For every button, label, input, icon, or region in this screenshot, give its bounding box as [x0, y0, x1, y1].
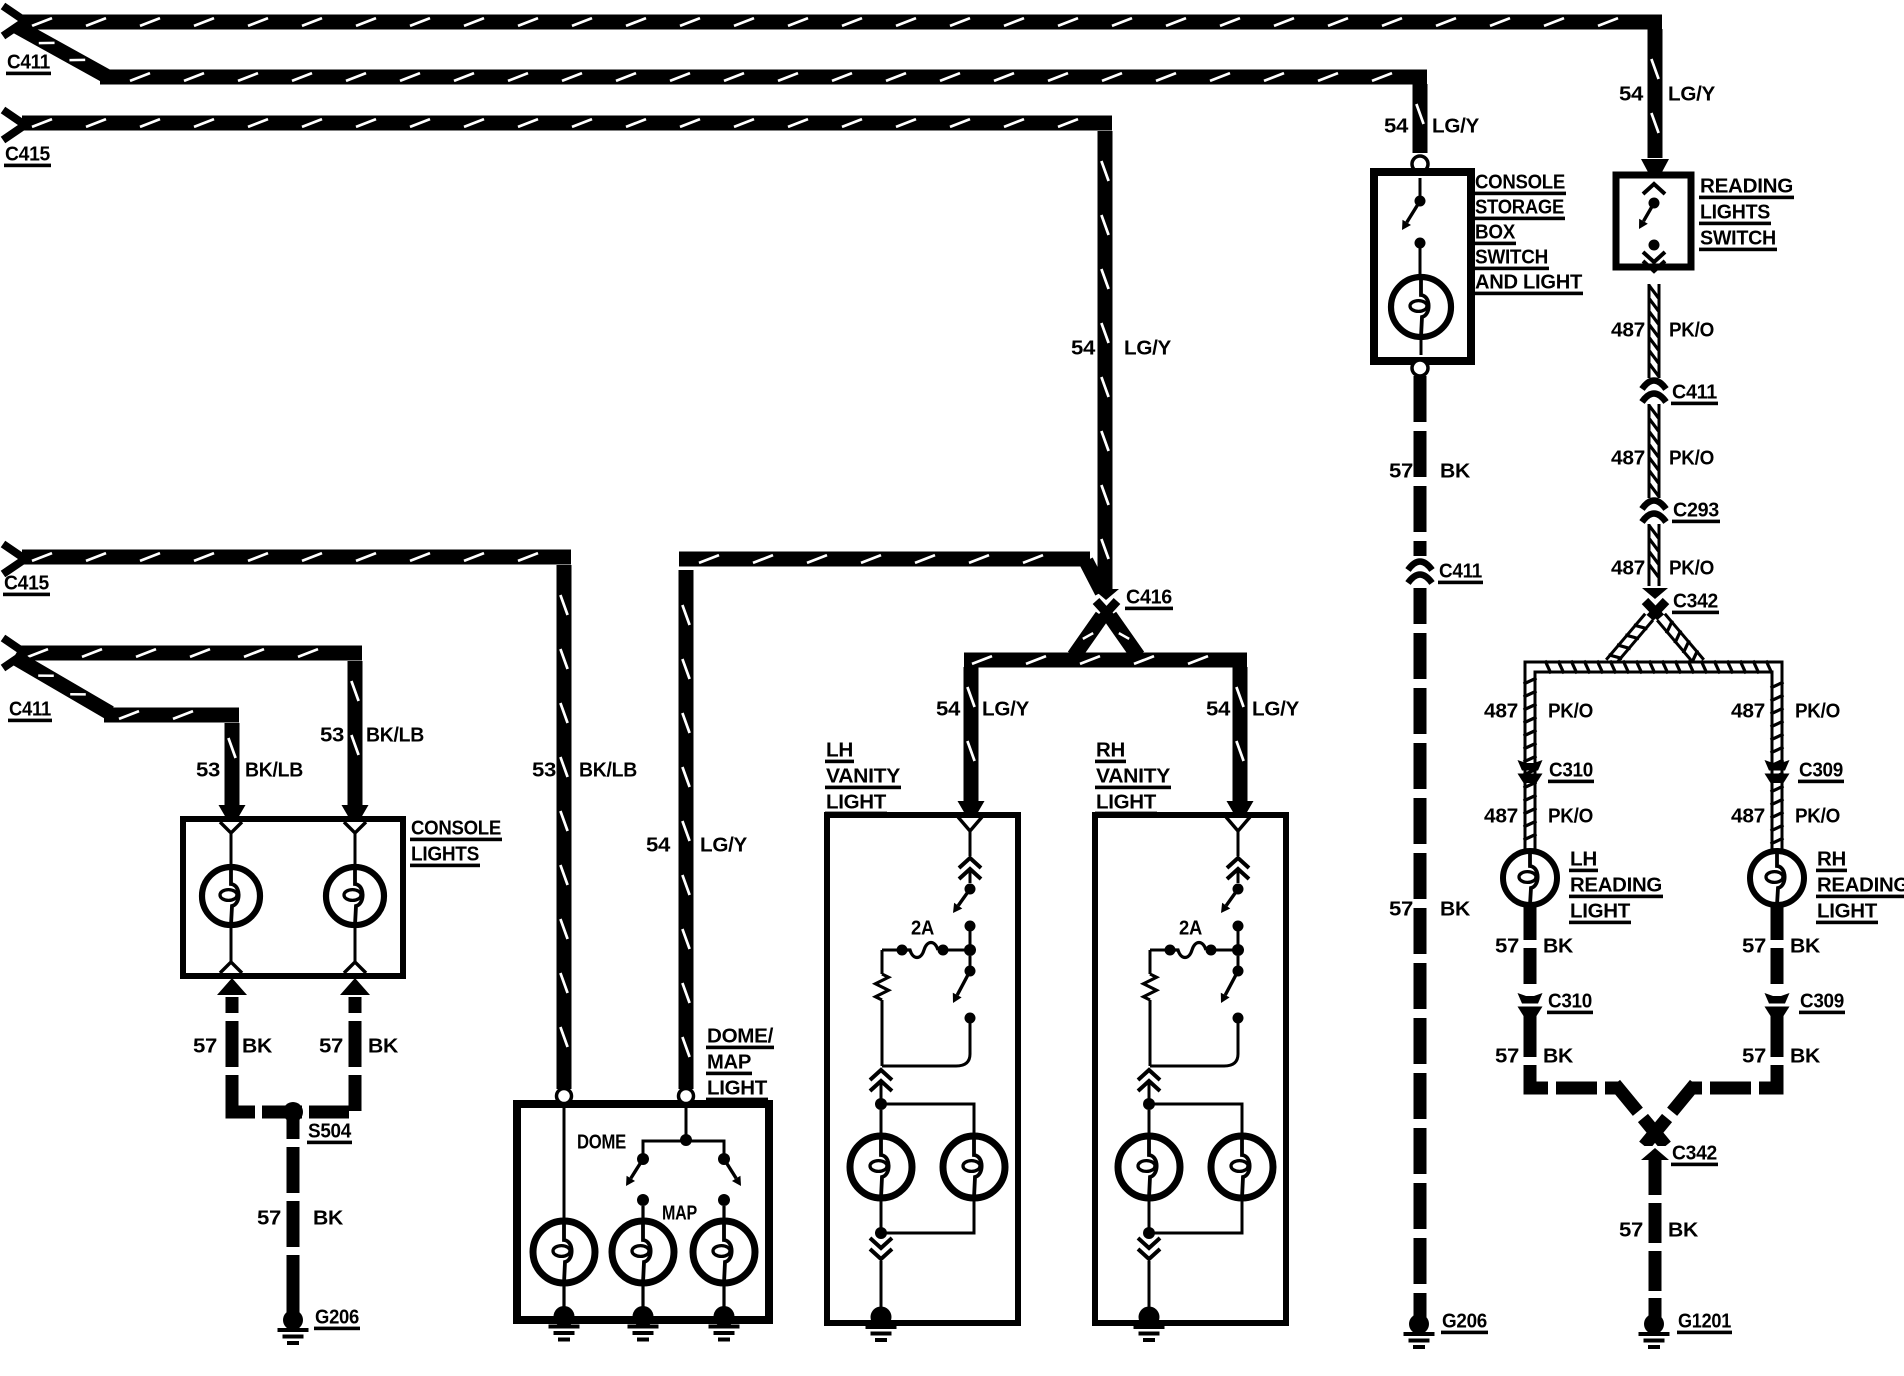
connector C411 (top left, in-line connector half): [3, 6, 25, 36]
wire 53 BK/LB vertical drop to dome/map light: [557, 565, 572, 1089]
label C342 (lower): [1671, 1142, 1718, 1166]
label 57 BK (storage box ground, lower): [1389, 898, 1471, 920]
svg-text:LG/Y: LG/Y: [700, 834, 748, 856]
svg-text:G206: G206: [315, 1306, 359, 1328]
dome bulb ground lead and case ground: [549, 1283, 580, 1342]
connector C411 (reading lights circuit): [1642, 381, 1666, 403]
label C411 (reading lights circuit): [1671, 381, 1718, 405]
svg-text:C411: C411: [1439, 560, 1482, 582]
svg-text:RH: RH: [1817, 848, 1846, 870]
svg-text:487: 487: [1611, 447, 1645, 469]
label 53 BK/LB (console lights LH feed): [196, 759, 303, 781]
label 57 BK (RH reading light): [1742, 935, 1821, 957]
label C310 (lower): [1547, 990, 1593, 1014]
svg-text:BK: BK: [1543, 935, 1574, 957]
label 57 BK (S504 to G206): [257, 1207, 344, 1229]
svg-text:READING: READING: [1817, 874, 1904, 896]
svg-text:487: 487: [1484, 805, 1518, 827]
wire 57 BK from C309 to splice C342 (lower): [1644, 1016, 1777, 1146]
svg-text:57: 57: [1495, 935, 1519, 957]
wire 54 LG/Y from C416 to dome/map light (horizontal run): [679, 552, 1102, 593]
svg-text:LG/Y: LG/Y: [982, 698, 1030, 720]
connector C342 (lower): [1641, 1146, 1669, 1160]
RH vanity light bulb 1: [1118, 1136, 1180, 1198]
svg-text:57: 57: [1742, 935, 1766, 957]
RH vanity light terminal notch: [1226, 817, 1250, 856]
wire 53 BK/LB drop to console lights RH bulb: [342, 661, 369, 817]
console lights LH bulb: [202, 867, 260, 925]
svg-text:G206: G206: [1442, 1310, 1487, 1332]
wire 54 LG/Y vertical drop from C415 run to connector C416: [1098, 131, 1113, 589]
RH vanity light door switch: [1221, 884, 1244, 957]
RH vanity light bulb 2: [1211, 1136, 1273, 1198]
ground G206 (console lights): [278, 1295, 309, 1345]
dome bulb: [533, 1221, 595, 1283]
connector C309 (lower): [1765, 993, 1790, 1016]
label 57 BK (console RH ground lead): [319, 1035, 399, 1057]
label DOME/ MAP LIGHT: [706, 1025, 774, 1101]
LH vanity light ground chevrons: [870, 1238, 892, 1308]
label G1201: [1677, 1310, 1732, 1334]
label C411 (mid left): [8, 698, 52, 722]
wire 57 BK from console lights RH bulb to splice S504: [340, 978, 370, 1104]
svg-text:CONSOLE: CONSOLE: [1475, 171, 1565, 193]
wire 487 PK/O from C293 to C342: [1648, 524, 1661, 586]
svg-text:VANITY: VANITY: [826, 765, 901, 787]
svg-text:BK: BK: [1668, 1219, 1699, 1241]
svg-text:LG/Y: LG/Y: [1252, 698, 1300, 720]
svg-text:C415: C415: [4, 572, 49, 594]
label RH VANITY LIGHT: [1095, 739, 1171, 815]
svg-text:LIGHTS: LIGHTS: [411, 843, 479, 865]
svg-text:C411: C411: [7, 51, 50, 73]
svg-text:C310: C310: [1548, 990, 1592, 1012]
svg-text:STORAGE: STORAGE: [1475, 196, 1564, 218]
label 487 PK/O (above C342): [1611, 557, 1714, 579]
svg-text:PK/O: PK/O: [1795, 805, 1840, 827]
svg-text:54: 54: [1071, 337, 1096, 359]
label 487 PK/O (LH lower): [1484, 805, 1593, 827]
svg-text:LH: LH: [1570, 848, 1597, 870]
reading lights switch output chevron: [1643, 261, 1665, 271]
svg-text:BK/LB: BK/LB: [245, 759, 303, 781]
svg-text:LIGHT: LIGHT: [1096, 791, 1156, 813]
svg-text:DOME/: DOME/: [707, 1025, 774, 1047]
svg-text:BK: BK: [1543, 1045, 1574, 1067]
wire 53 BK/LB from C415 to dome/map light (horizontal run): [22, 550, 571, 565]
svg-text:BK: BK: [1790, 1045, 1821, 1067]
svg-text:PK/O: PK/O: [1548, 805, 1593, 827]
wire 57 BK from C310 to splice C342 (lower): [1530, 1016, 1666, 1146]
svg-text:BOX: BOX: [1475, 221, 1516, 243]
svg-text:BK: BK: [1440, 898, 1471, 920]
label 57 BK (to G1201): [1619, 1219, 1699, 1241]
label C293: [1672, 499, 1720, 523]
RH vanity light resistor branch: [1144, 950, 1157, 1066]
console storage box bottom terminal: [1412, 360, 1428, 376]
svg-text:C342: C342: [1672, 1142, 1717, 1164]
svg-text:PK/O: PK/O: [1669, 319, 1714, 341]
connector C293: [1642, 501, 1666, 523]
svg-text:54: 54: [936, 698, 961, 720]
LH vanity light bulb 1: [850, 1136, 912, 1198]
svg-text:57: 57: [1619, 1219, 1643, 1241]
LH vanity light box: [827, 815, 1018, 1323]
label 57 BK (LH reading light): [1495, 935, 1574, 957]
wire 57 BK from console lights LH bulb to splice S504: [217, 978, 247, 1104]
wire 53 BK/LB from C411 to console lights RH bulb (horizontal run): [18, 646, 362, 661]
wire 53 BK/LB drop to console lights LH bulb: [219, 723, 246, 817]
connector C411 (fourth from top, in-line connector half): [3, 638, 25, 668]
wire 57 BK horizontal joining runs at splice S504: [232, 1095, 355, 1112]
label C310 (upper): [1548, 759, 1594, 783]
wire 53 BK/LB from C411 to console lights LH bulb (diagonal + horizontal run): [14, 657, 239, 723]
RH vanity light 2A fuse branch: [1150, 943, 1238, 958]
svg-text:LIGHTS: LIGHTS: [1700, 201, 1770, 223]
svg-text:53: 53: [196, 759, 220, 781]
svg-text:LIGHT: LIGHT: [1817, 900, 1877, 922]
wire 487 PK/O from C411 to C293: [1648, 404, 1661, 498]
LH vanity light internal connector chevrons: [959, 858, 981, 883]
connector C411 (in-line on 57 BK wire): [1408, 562, 1432, 584]
svg-text:SWITCH: SWITCH: [1700, 227, 1776, 249]
svg-text:53: 53: [320, 724, 344, 746]
label 57 BK (storage box ground, upper): [1389, 460, 1471, 482]
console storage box top terminal: [1412, 156, 1428, 172]
svg-text:BK: BK: [1440, 460, 1471, 482]
svg-text:487: 487: [1484, 700, 1518, 722]
wire 57 BK from LH reading light to C310 (lower): [1524, 904, 1537, 991]
wire 54 LG/Y from C411 to reading lights switch (top horizontal run): [22, 15, 1662, 30]
svg-text:54: 54: [1206, 698, 1231, 720]
console storage box switch: [1402, 178, 1426, 278]
svg-text:MAP: MAP: [662, 1202, 697, 1224]
label 57 BK (LH below C310): [1495, 1045, 1574, 1067]
label 54 LG/Y (RH vanity feed): [1206, 698, 1300, 720]
svg-text:RH: RH: [1096, 739, 1125, 761]
dome/map light terminal (53 BK/LB side): [557, 1089, 572, 1104]
connector C415 (third from top, in-line connector half): [3, 544, 25, 574]
svg-text:READING: READING: [1700, 175, 1793, 197]
svg-text:C309: C309: [1799, 759, 1843, 781]
label C309 (lower): [1799, 990, 1845, 1014]
label CONSOLE STORAGE BOX SWITCH AND LIGHT: [1474, 171, 1583, 295]
svg-text:LG/Y: LG/Y: [1124, 337, 1172, 359]
wire 54 LG/Y from C411 to console storage box switch (diagonal + second horizontal run): [16, 26, 1427, 85]
wire 54 LG/Y vertical drop to dome/map light switch side: [679, 570, 694, 1089]
RH vanity light bulb branch node: [1143, 1098, 1242, 1136]
RH vanity light main switch: [1150, 956, 1244, 1066]
connector C310 (upper): [1518, 760, 1543, 783]
wire 54 LG/Y from C415 to connector C416 (horizontal run): [22, 116, 1112, 131]
wire 487 PK/O split to LH and RH reading lights: [1524, 617, 1784, 855]
ground G206 (console storage box): [1404, 1298, 1435, 1349]
label 487 PK/O (LH upper): [1484, 700, 1593, 722]
svg-text:LIGHT: LIGHT: [707, 1077, 767, 1099]
svg-text:487: 487: [1611, 557, 1645, 579]
RH vanity light box: [1095, 815, 1286, 1323]
LH vanity light resistor branch: [876, 950, 889, 1066]
svg-text:487: 487: [1611, 319, 1645, 341]
console lights RH bulb: [326, 867, 384, 925]
LH reading light bulb: [1503, 851, 1557, 905]
label 2A (LH vanity fuse): [911, 917, 934, 939]
svg-text:LG/Y: LG/Y: [1668, 83, 1716, 105]
svg-text:S504: S504: [308, 1120, 352, 1142]
connector C416 (4-way splice connector): [1093, 589, 1119, 624]
connector C415 (second from top, in-line connector half): [3, 110, 25, 140]
LH vanity light main switch: [882, 956, 976, 1066]
svg-text:C310: C310: [1549, 759, 1593, 781]
RH vanity light case ground: [1134, 1307, 1165, 1343]
label LH READING LIGHT: [1569, 848, 1663, 924]
svg-text:C293: C293: [1673, 499, 1719, 521]
svg-text:DOME: DOME: [577, 1131, 626, 1153]
svg-text:READING: READING: [1570, 874, 1662, 896]
wire 487 PK/O from reading lights switch to connector C411: [1648, 284, 1661, 378]
svg-text:57: 57: [1389, 898, 1413, 920]
label G206 (console lights ground): [314, 1306, 360, 1330]
svg-text:SWITCH: SWITCH: [1475, 246, 1548, 268]
ground G1201: [1639, 1298, 1670, 1349]
label 53 BK/LB (console lights RH feed): [320, 724, 424, 746]
LH vanity light case ground: [866, 1307, 897, 1343]
connector C309 (upper): [1765, 760, 1790, 783]
LH vanity light bulb ground leads: [875, 1198, 974, 1239]
dome/map switch common lead and bar: [643, 1104, 724, 1158]
svg-text:57: 57: [257, 1207, 281, 1229]
svg-text:C342: C342: [1673, 590, 1718, 612]
map bulb RH: [693, 1221, 755, 1283]
label 487 PK/O (above C411): [1611, 319, 1714, 341]
label 54 LG/Y (wire to reading lights switch): [1619, 83, 1716, 105]
svg-text:PK/O: PK/O: [1669, 447, 1714, 469]
label G206 (console storage box ground): [1441, 1310, 1488, 1334]
svg-text:57: 57: [193, 1035, 217, 1057]
svg-text:C415: C415: [5, 143, 50, 165]
wire 54 LG/Y drop to LH vanity light: [958, 667, 985, 813]
svg-text:2A: 2A: [911, 917, 934, 939]
label 487 PK/O (above C293): [1611, 447, 1714, 469]
label 487 PK/O (RH lower): [1731, 805, 1840, 827]
label S504: [307, 1120, 352, 1144]
label MAP: [662, 1202, 697, 1224]
label DOME: [577, 1131, 626, 1153]
svg-text:LIGHT: LIGHT: [1570, 900, 1630, 922]
reading lights switch internals: [1639, 184, 1665, 262]
LH vanity light bulb branch node: [875, 1098, 974, 1136]
reading lights switch box: [1616, 175, 1691, 267]
wire 57 BK from RH reading light to C309 (lower): [1771, 904, 1784, 991]
LH vanity light door switch: [953, 884, 976, 957]
svg-text:BK: BK: [1790, 935, 1821, 957]
svg-text:C411: C411: [1672, 381, 1717, 403]
svg-text:487: 487: [1731, 700, 1765, 722]
wire 54 LG/Y drop to RH vanity light: [1227, 667, 1254, 813]
dome/map light terminal (54 LG/Y side): [679, 1089, 694, 1104]
label CONSOLE LIGHTS: [410, 817, 502, 867]
svg-text:LIGHT: LIGHT: [826, 791, 886, 813]
label C415 (upper left): [4, 143, 51, 167]
svg-text:C416: C416: [1126, 586, 1172, 608]
svg-text:G1201: G1201: [1678, 1310, 1731, 1332]
label 54 LG/Y (wire to C416): [1071, 337, 1172, 359]
svg-text:LH: LH: [826, 739, 853, 761]
wire 57 BK from splice S504 to ground G206: [287, 1118, 300, 1312]
svg-text:57: 57: [1389, 460, 1413, 482]
label LH VANITY LIGHT: [825, 739, 901, 815]
svg-text:C309: C309: [1800, 990, 1844, 1012]
console storage box bulb: [1391, 277, 1451, 355]
label 53 BK/LB (dome feed): [532, 759, 637, 781]
label C416: [1125, 586, 1173, 610]
label RH READING LIGHT: [1816, 848, 1904, 924]
label 487 PK/O (RH upper): [1731, 700, 1840, 722]
svg-text:54: 54: [1384, 115, 1409, 137]
label 54 LG/Y (dome/map light feed): [646, 834, 748, 856]
svg-text:LG/Y: LG/Y: [1432, 115, 1480, 137]
svg-text:PK/O: PK/O: [1795, 700, 1840, 722]
LH vanity light 2A fuse branch: [882, 943, 970, 958]
RH vanity light internal connector chevrons: [1227, 858, 1249, 883]
splice S504: [283, 1102, 303, 1122]
svg-text:57: 57: [1495, 1045, 1519, 1067]
svg-text:487: 487: [1731, 805, 1765, 827]
console lights LH bulb terminals and leads: [220, 822, 242, 973]
console lights RH bulb terminals and leads: [344, 822, 366, 973]
dome/map switch blades: [626, 1153, 741, 1206]
svg-text:2A: 2A: [1179, 917, 1202, 939]
label 57 BK (RH below C309): [1742, 1045, 1821, 1067]
svg-text:C411: C411: [9, 698, 51, 720]
LH vanity light lower connector chevrons: [870, 1070, 892, 1099]
map bulb leads: [643, 1206, 724, 1221]
svg-text:AND LIGHT: AND LIGHT: [1475, 271, 1582, 293]
wire 54 LG/Y corner drop to console storage box switch: [1413, 84, 1428, 153]
svg-text:BK: BK: [313, 1207, 344, 1229]
LH vanity light terminal notch: [958, 817, 982, 856]
RH vanity light bulb ground leads: [1143, 1198, 1242, 1239]
svg-text:BK/LB: BK/LB: [579, 759, 637, 781]
label C411 (on 57 BK wire): [1438, 560, 1483, 584]
svg-text:BK/LB: BK/LB: [366, 724, 424, 746]
console storage box switch and light box: [1374, 172, 1471, 361]
svg-text:PK/O: PK/O: [1669, 557, 1714, 579]
label C342 (upper): [1672, 590, 1719, 614]
svg-text:CONSOLE: CONSOLE: [411, 817, 501, 839]
svg-text:PK/O: PK/O: [1548, 700, 1593, 722]
connector C310 (lower): [1518, 993, 1543, 1016]
connector C342 (splice to LH/RH reading lights): [1642, 588, 1668, 623]
RH reading light bulb: [1750, 851, 1804, 905]
label 54 LG/Y (wire to console storage box switch): [1384, 115, 1480, 137]
console lights box: [183, 819, 403, 976]
LH vanity light bulb 2: [943, 1136, 1005, 1198]
dome bulb lead: [563, 1104, 566, 1221]
RH vanity light ground chevrons: [1138, 1238, 1160, 1308]
label 2A (RH vanity fuse): [1179, 917, 1202, 939]
label 54 LG/Y (LH vanity feed): [936, 698, 1030, 720]
wire 54 LG/Y branch from C416 to vanity lights (two diagonals + horizontal): [964, 616, 1247, 668]
svg-text:54: 54: [646, 834, 671, 856]
svg-text:54: 54: [1619, 83, 1644, 105]
map bulb LH: [612, 1221, 674, 1283]
label READING LIGHTS SWITCH: [1699, 175, 1794, 251]
map bulb LH ground lead and case ground: [628, 1283, 659, 1342]
dome/map light box: [517, 1104, 769, 1320]
svg-text:BK: BK: [368, 1035, 399, 1057]
svg-text:53: 53: [532, 759, 556, 781]
wire 54 LG/Y corner drop to reading lights switch: [1641, 29, 1669, 173]
label 57 BK (console LH ground lead): [193, 1035, 273, 1057]
wire 57 BK from console storage box to ground G206: [1414, 376, 1427, 1315]
svg-text:57: 57: [319, 1035, 343, 1057]
svg-text:BK: BK: [242, 1035, 273, 1057]
label C415 (mid left): [3, 572, 50, 596]
label C309 (upper): [1798, 759, 1844, 783]
RH vanity light lower connector chevrons: [1138, 1070, 1160, 1099]
svg-text:VANITY: VANITY: [1096, 765, 1171, 787]
wire 57 BK from C342 to ground G1201: [1649, 1157, 1662, 1315]
map bulb RH ground lead and case ground: [709, 1283, 740, 1342]
svg-text:57: 57: [1742, 1045, 1766, 1067]
svg-text:MAP: MAP: [707, 1051, 751, 1073]
label C411 (top left): [6, 51, 51, 75]
